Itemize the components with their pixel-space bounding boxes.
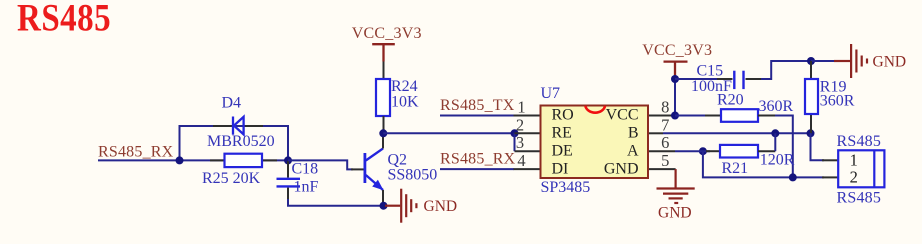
wire emitter pin: [382, 190, 384, 206]
capacitor C18: [277, 179, 301, 187]
svg-text:6: 6: [661, 133, 669, 152]
svg-text:DI: DI: [552, 160, 569, 177]
svg-text:RE: RE: [552, 125, 572, 142]
pin stub connector 1: [822, 159, 838, 161]
svg-text:D4: D4: [222, 95, 242, 112]
junction RE DE: [511, 129, 519, 137]
wire RS485_RX horizontal: [98, 159, 288, 161]
wire base of Q2: [288, 160, 353, 169]
wire pin8 to R20: [675, 115, 710, 117]
svg-text:120R: 120R: [760, 152, 795, 169]
junction pin6: [699, 147, 707, 155]
junction top right: [807, 57, 815, 65]
svg-text:RS485_RX: RS485_RX: [440, 151, 516, 168]
junction B R21: [771, 129, 779, 137]
svg-text:VCC_3V3: VCC_3V3: [642, 42, 712, 59]
svg-text:RS485_TX: RS485_TX: [440, 97, 515, 114]
svg-text:7: 7: [661, 115, 669, 134]
pin stub C15 left: [717, 78, 733, 80]
svg-text:B: B: [628, 125, 639, 142]
wire R24 top pin: [383, 62, 385, 80]
wire collector to RE DE: [383, 132, 514, 134]
pin stubs resistor R25: [210, 159, 225, 161]
svg-text:8: 8: [661, 98, 669, 117]
resistor R24: [376, 79, 390, 116]
svg-text:GND: GND: [424, 198, 458, 215]
svg-text:R24: R24: [391, 78, 418, 95]
ground GND3: [834, 44, 867, 78]
svg-text:GND: GND: [658, 205, 692, 222]
svg-text:R21: R21: [722, 160, 749, 177]
IC U7 body: [541, 106, 649, 179]
wire loop for D4: [180, 126, 289, 160]
wire collector pin: [382, 133, 384, 148]
connector J1 body: [838, 150, 884, 187]
wire to GND3: [811, 60, 836, 62]
svg-text:C18: C18: [292, 161, 319, 178]
pin stub connector 2: [822, 176, 838, 178]
resistor R20: [721, 109, 758, 122]
svg-text:4: 4: [517, 151, 525, 170]
pin stub R19 bottom: [810, 114, 812, 133]
resistor R25: [225, 154, 263, 167]
connector divider: [873, 150, 875, 187]
pin stubs diode D4: [213, 125, 232, 127]
wire C18 to emitter junction: [288, 199, 384, 206]
svg-text:2: 2: [516, 115, 524, 134]
svg-text:RS485_RX: RS485_RX: [98, 143, 174, 160]
svg-text:RO: RO: [552, 107, 574, 124]
svg-text:3: 3: [516, 133, 524, 152]
wire VCC to C15: [675, 78, 717, 80]
svg-text:1nF: 1nF: [294, 179, 319, 196]
junction emitter: [380, 202, 388, 210]
wire pin7 B net: [663, 132, 811, 134]
svg-text:VCC_3V3: VCC_3V3: [352, 25, 422, 42]
diode D4: [233, 117, 244, 135]
pin 6 stub: [648, 150, 675, 152]
wire pin6 to R21: [675, 150, 710, 152]
capacitor C15: [734, 71, 743, 89]
svg-text:RS485: RS485: [837, 133, 882, 150]
IC notch arc: [585, 106, 605, 113]
wire A net to connector pin2: [703, 151, 824, 177]
junction A R20: [789, 173, 797, 181]
svg-text:C15: C15: [697, 62, 724, 79]
pin 7 stub: [648, 132, 663, 134]
svg-text:360R: 360R: [759, 98, 794, 115]
svg-text:2: 2: [850, 168, 858, 187]
svg-text:RS485: RS485: [837, 189, 882, 206]
svg-text:10K: 10K: [391, 94, 419, 111]
svg-text:DE: DE: [552, 142, 573, 159]
wire RS485_TX: [440, 115, 514, 117]
svg-text:RS485: RS485: [17, 0, 111, 39]
junction pin8: [671, 112, 679, 120]
wire C18 bottom pin: [287, 188, 289, 200]
svg-text:5: 5: [661, 151, 669, 170]
pin 2 stub: [515, 132, 541, 134]
pin 5 stub: [648, 168, 676, 170]
wire R24 bottom pin: [383, 116, 385, 133]
svg-text:SP3485: SP3485: [541, 179, 591, 196]
junction B R19: [807, 129, 815, 137]
svg-text:GND: GND: [873, 54, 907, 71]
pin 1 stub: [514, 115, 541, 117]
svg-text:MBR0520: MBR0520: [207, 133, 275, 150]
svg-text:1: 1: [517, 98, 525, 117]
svg-text:SS8050: SS8050: [388, 167, 438, 184]
pin stub base: [351, 168, 364, 170]
wire junction down to DE: [514, 133, 516, 151]
svg-text:VCC: VCC: [606, 107, 639, 124]
svg-text:A: A: [627, 142, 639, 159]
svg-text:R20: R20: [717, 91, 744, 108]
pin 4 stub: [514, 168, 541, 170]
svg-text:R25 20K: R25 20K: [202, 170, 261, 187]
resistor R19: [805, 79, 818, 114]
power bar VCC2: [664, 62, 688, 75]
wire B down to connector pin1: [811, 133, 825, 160]
resistor R21: [720, 145, 758, 158]
svg-text:U7: U7: [541, 85, 561, 102]
junction VCC C15: [671, 75, 679, 83]
power bar VCC1: [372, 44, 395, 61]
pin stub R21 left: [706, 150, 720, 152]
junction A: [176, 156, 184, 164]
wire C18 top pin: [287, 161, 289, 178]
pin stub R20 left: [705, 115, 721, 117]
ground GND2: [657, 189, 695, 204]
wire RS485_RX 2: [440, 168, 514, 170]
pin stub R19 top: [810, 61, 812, 79]
wire pin5 to ground: [674, 169, 676, 187]
transistor Q2: [365, 149, 384, 191]
pin 8 stub: [648, 115, 675, 117]
junction B: [284, 156, 292, 164]
wire R21 up to B: [774, 133, 776, 151]
pin stub R21 right: [758, 150, 775, 152]
svg-text:GND: GND: [604, 160, 639, 177]
pin stub R20 right: [758, 115, 775, 117]
svg-text:360R: 360R: [820, 93, 855, 110]
wire VCC2 down to pin8: [674, 75, 676, 116]
wire C15 right up to junction: [761, 61, 811, 79]
pin stub C15 right: [746, 78, 762, 80]
wire R20 right down to A net: [775, 116, 793, 178]
junction R24 collector: [379, 129, 387, 137]
pin 3 stub: [515, 150, 541, 152]
ground GND1: [385, 189, 416, 223]
